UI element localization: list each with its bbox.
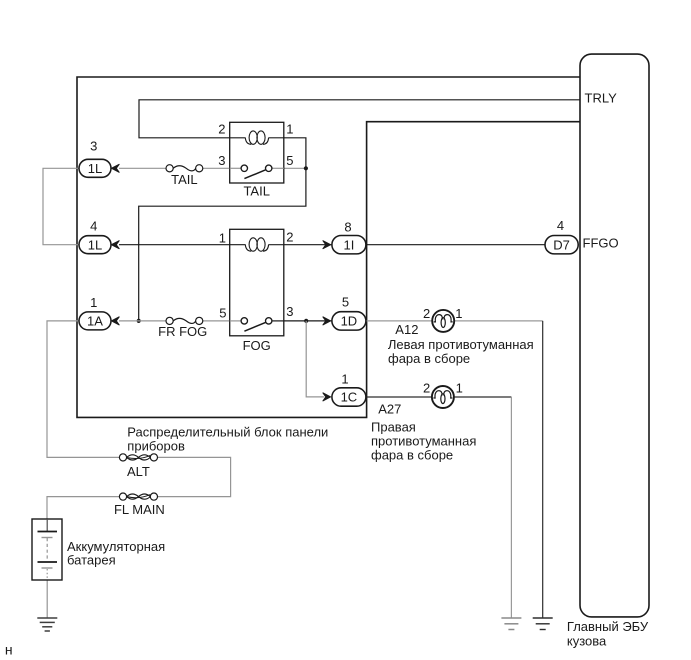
- battery internal lead: [46, 519, 48, 532]
- oval body 1L: [79, 159, 111, 177]
- FOG relay box: [230, 229, 284, 335]
- connector oval 1L pin 3: [79, 139, 119, 178]
- arrow into 1A pin 1: [111, 317, 119, 325]
- wire TAIL relay pin1+pin5 loop down to node at 1A: [139, 138, 306, 321]
- svg-text:D7: D7: [553, 237, 570, 252]
- wire FOG relay pin 3 to connector 1D: [284, 320, 332, 322]
- lamp A27 (right fog lamp): [371, 380, 476, 462]
- wire 1L(3) to fuse TAIL: [119, 167, 166, 169]
- svg-text:A12: A12: [395, 322, 418, 337]
- svg-text:1: 1: [455, 306, 462, 321]
- lamp filament A27: [433, 391, 442, 398]
- battery cell plates: [38, 532, 58, 580]
- oval body 1L: [79, 236, 111, 254]
- svg-text:TAIL: TAIL: [171, 172, 198, 187]
- connector oval 1I pin 8: [323, 220, 366, 254]
- fusible link ALT: [119, 454, 157, 479]
- svg-text:TAIL: TAIL: [243, 184, 270, 199]
- oval body 1D: [332, 312, 366, 330]
- fuse terminals and element: [166, 317, 203, 324]
- svg-text:FR FOG: FR FOG: [158, 324, 207, 339]
- wire 1L(4) to FOG relay pin 1: [119, 244, 230, 246]
- svg-text:1L: 1L: [88, 161, 102, 176]
- svg-text:1: 1: [456, 380, 463, 395]
- wire FL MAIN to battery positive: [47, 497, 119, 519]
- svg-text:2: 2: [423, 306, 430, 321]
- svg-text:н: н: [5, 642, 13, 658]
- connector oval D7 pin 4 (FFGO): [545, 218, 578, 254]
- svg-text:1A: 1A: [87, 314, 103, 329]
- svg-text:1C: 1C: [341, 390, 358, 405]
- TAIL relay contact: [230, 165, 284, 179]
- wire 1C to lamp A27 pin 2: [366, 396, 433, 398]
- lamp A12 (left fog lamp): [388, 306, 534, 366]
- lamp filament A12: [434, 315, 443, 322]
- battery (Аккумуляторная батарея): [32, 519, 165, 580]
- svg-text:FOG: FOG: [243, 338, 271, 353]
- oval body 1C: [332, 388, 366, 406]
- wire TAIL relay pin 5 stub: [284, 167, 306, 169]
- svg-text:фара в сборе: фара в сборе: [371, 447, 453, 462]
- arrow into 1C pin 1: [323, 393, 331, 401]
- wire A12 vertical to ground (dark): [542, 321, 544, 618]
- svg-text:FFGO: FFGO: [583, 236, 619, 251]
- svg-text:A27: A27: [378, 402, 401, 417]
- fuse TAIL: [166, 165, 203, 187]
- connector oval 1L pin 4: [79, 219, 119, 254]
- svg-text:Главный ЭБУ: Главный ЭБУ: [567, 619, 649, 634]
- wire A27 vertical to ground (light): [510, 397, 512, 618]
- svg-text:TRLY: TRLY: [585, 91, 618, 106]
- svg-text:2: 2: [286, 230, 293, 245]
- fuse terminals and element: [166, 165, 203, 172]
- connector oval 1C pin 1: [323, 372, 366, 407]
- svg-text:2: 2: [423, 380, 430, 395]
- svg-text:1: 1: [341, 372, 348, 387]
- connector oval 1D pin 5: [323, 295, 366, 330]
- wire fuse FR FOG to FOG relay pin 5: [203, 320, 230, 322]
- svg-text:1: 1: [90, 295, 97, 310]
- svg-text:1L: 1L: [88, 237, 102, 252]
- FOG relay coil: [230, 238, 284, 251]
- arrow into 1I pin 8: [323, 241, 331, 249]
- TAIL relay coil: [230, 131, 284, 144]
- svg-text:5: 5: [219, 306, 226, 321]
- fusible link FL MAIN: [114, 493, 165, 517]
- wire 1A node to fuse FR FOG: [119, 320, 166, 322]
- fuse FR FOG: [158, 317, 207, 339]
- svg-text:батарея: батарея: [67, 553, 116, 568]
- svg-text:8: 8: [344, 220, 351, 235]
- wire node to connector 1C (gray): [306, 321, 324, 397]
- wire 1D to lamp A12 pin 2: [366, 320, 432, 322]
- svg-text:1D: 1D: [341, 314, 358, 329]
- lamp bulb circle A12: [432, 310, 454, 332]
- svg-text:1I: 1I: [343, 237, 354, 252]
- lamp bulb circle A27: [432, 386, 454, 408]
- battery case: [32, 519, 62, 580]
- svg-text:3: 3: [90, 139, 97, 154]
- wire ALT to fusible link FL MAIN: [158, 457, 231, 496]
- wire lamp A12 pin 1 rightward: [454, 320, 542, 322]
- junction block box (Распределительный блок панели приборов): [77, 77, 580, 417]
- wire fuse TAIL to TAIL relay pin 3: [203, 167, 230, 169]
- wire loop connecting 1L(3) and 1L(4) outside box: [43, 168, 80, 244]
- junction dot at 1A row: [137, 319, 141, 323]
- arrow into 1L pin 4: [111, 241, 119, 249]
- svg-text:ALT: ALT: [127, 464, 150, 479]
- wire FOG relay pin 2 to connector 1I: [284, 244, 332, 246]
- wire TRLY net: ECU TRLY to TAIL relay pin 2: [139, 100, 580, 138]
- arrow into 1L pin 3: [111, 164, 119, 172]
- ECU box (Главный ЭБУ кузова): [580, 54, 649, 617]
- wire 1A down to fusible link ALT: [47, 321, 119, 458]
- wire battery negative to ground: [46, 580, 48, 618]
- oval body D7: [545, 236, 578, 254]
- wire lamp A27 pin 1 rightward: [453, 396, 511, 398]
- oval body 1A: [79, 312, 111, 330]
- svg-text:3: 3: [286, 304, 293, 319]
- svg-text:2: 2: [218, 122, 225, 137]
- junction dot pin5/pin1: [304, 166, 308, 170]
- junction dot pin3 node: [304, 319, 308, 323]
- oval body 1I: [332, 236, 366, 254]
- FOG relay contact: [230, 318, 284, 332]
- wire 1I to D7 (FFGO): [367, 244, 545, 246]
- svg-text:Левая противотуманная: Левая противотуманная: [388, 337, 534, 352]
- svg-text:5: 5: [286, 153, 293, 168]
- svg-text:1: 1: [219, 230, 226, 245]
- fusible link terminals and twisted element: [119, 493, 157, 500]
- svg-text:противотуманная: противотуманная: [371, 433, 476, 448]
- svg-text:приборов: приборов: [127, 439, 185, 454]
- svg-text:фара в сборе: фара в сборе: [388, 351, 470, 366]
- arrow into 1D pin 5: [323, 317, 331, 325]
- svg-text:1: 1: [286, 122, 293, 137]
- svg-text:4: 4: [557, 218, 564, 233]
- svg-text:FL MAIN: FL MAIN: [114, 502, 165, 517]
- svg-text:5: 5: [342, 295, 349, 310]
- svg-text:4: 4: [90, 219, 97, 234]
- svg-text:Распределительный блок панели: Распределительный блок панели: [127, 425, 328, 440]
- svg-text:кузова: кузова: [567, 634, 607, 649]
- svg-text:Правая: Правая: [371, 419, 416, 434]
- connector oval 1A pin 1: [79, 295, 119, 330]
- ground (battery): [37, 618, 57, 631]
- ground (lamp A12 circuit): [533, 618, 553, 630]
- svg-text:3: 3: [218, 153, 225, 168]
- fusible link terminals and twisted element: [119, 454, 157, 461]
- TAIL relay box: [230, 122, 284, 183]
- ground (lamp A27 circuit): [501, 618, 521, 630]
